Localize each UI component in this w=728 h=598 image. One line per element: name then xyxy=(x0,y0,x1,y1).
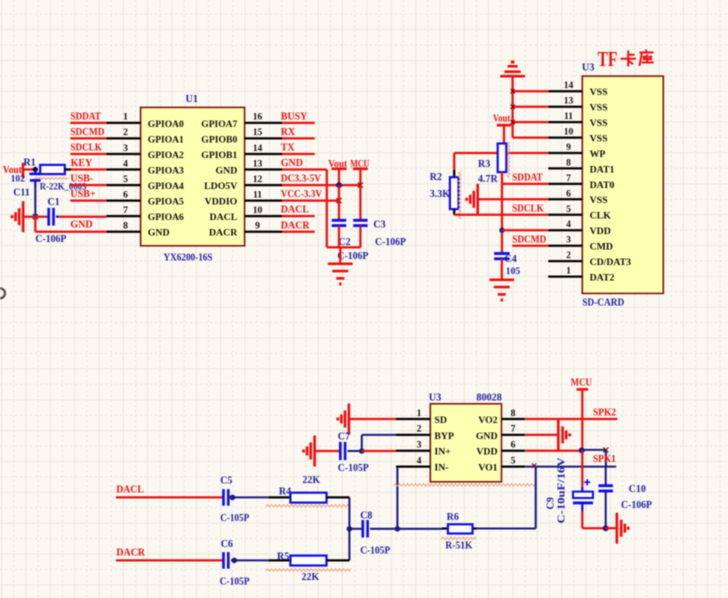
U1 pin 1 xyxy=(106,122,140,124)
svg-text:USB-: USB- xyxy=(70,174,93,185)
svg-text:9: 9 xyxy=(255,221,260,232)
svg-text:C-105P: C-105P xyxy=(360,545,390,556)
svg-text:22K: 22K xyxy=(302,572,320,583)
wire xyxy=(282,153,315,155)
ERC marker under amp xyxy=(394,484,536,486)
junction xyxy=(33,214,38,219)
svg-text:VSS: VSS xyxy=(590,134,609,145)
wire VO1/SPK1 xyxy=(525,466,617,468)
wire xyxy=(35,231,106,233)
svg-text:10: 10 xyxy=(564,127,574,138)
capacitor C7 xyxy=(339,442,342,460)
junction dot xyxy=(336,182,342,188)
U1 pin 15 xyxy=(245,137,282,139)
svg-text:GND: GND xyxy=(70,220,92,231)
wire xyxy=(349,528,363,530)
svg-text:C-106P: C-106P xyxy=(375,237,406,248)
wire xyxy=(34,217,36,232)
svg-text:BYP: BYP xyxy=(434,431,454,442)
amp pin 3 xyxy=(396,450,430,452)
svg-text:6: 6 xyxy=(123,189,128,200)
capacitor C3 xyxy=(353,219,367,222)
U1 pin 13 xyxy=(245,168,282,170)
svg-text:2: 2 xyxy=(417,424,422,435)
U1 pin 7 xyxy=(106,215,140,217)
svg-text:C-105P: C-105P xyxy=(220,576,250,587)
junction cross xyxy=(510,120,514,124)
SD pin 8 xyxy=(548,167,582,169)
U1 pin 11 xyxy=(245,199,282,201)
svg-text:8: 8 xyxy=(566,157,571,168)
amp pin 5 xyxy=(502,465,525,467)
wire xyxy=(327,559,350,561)
svg-text:GPIOA1: GPIOA1 xyxy=(148,134,184,145)
ERC marker under R6 xyxy=(441,537,476,539)
svg-text:VCC-3.3V: VCC-3.3V xyxy=(281,189,323,200)
wire xyxy=(71,168,106,170)
SD pin 10 xyxy=(548,136,582,138)
junction cross xyxy=(510,89,514,93)
amp pin 8 xyxy=(502,418,525,420)
wire GND pin7 xyxy=(525,434,558,436)
svg-text:4: 4 xyxy=(566,219,571,230)
wire IN- vertical xyxy=(396,467,398,529)
svg-text:SD-CARD: SD-CARD xyxy=(582,298,624,309)
svg-text:CLK: CLK xyxy=(590,211,612,222)
wire xyxy=(606,527,617,529)
svg-text:C5: C5 xyxy=(220,475,232,486)
wire xyxy=(349,418,396,420)
svg-text:C6: C6 xyxy=(221,539,233,550)
svg-text:C2: C2 xyxy=(338,237,350,248)
wire xyxy=(23,168,35,170)
svg-text:GND: GND xyxy=(216,165,238,176)
wire xyxy=(370,528,397,530)
capacitor C5 xyxy=(222,489,225,506)
wire VO2/SPK2 xyxy=(525,418,618,420)
wire xyxy=(70,199,106,201)
capacitor C8 xyxy=(361,520,364,538)
svg-text:11: 11 xyxy=(253,189,262,200)
svg-text:CD/DAT3: CD/DAT3 xyxy=(590,257,631,268)
svg-text:3: 3 xyxy=(417,440,422,451)
svg-text:VSS: VSS xyxy=(590,87,609,98)
U1 pin 14 xyxy=(245,153,282,155)
junction cross xyxy=(510,105,514,109)
junction cross on SPK1 wire xyxy=(532,463,536,467)
amp pin 6 xyxy=(502,450,525,452)
svg-text:1: 1 xyxy=(566,266,571,277)
svg-text:R5: R5 xyxy=(277,551,289,562)
SD pin 6 xyxy=(548,198,582,200)
svg-text:VO1: VO1 xyxy=(478,463,497,474)
svg-text:6: 6 xyxy=(511,440,516,451)
U1 pin 9 xyxy=(245,231,282,233)
svg-text:R1: R1 xyxy=(24,158,36,169)
junction cross xyxy=(336,198,341,203)
SD pin 13 xyxy=(548,106,582,108)
wire xyxy=(70,122,106,124)
U1 pin 10 xyxy=(245,215,282,217)
wire xyxy=(513,136,549,138)
svg-text:2: 2 xyxy=(566,250,571,261)
svg-text:C-106P: C-106P xyxy=(621,500,652,511)
wire xyxy=(513,90,549,92)
svg-text:C-105P: C-105P xyxy=(220,513,249,524)
svg-text:4.7R: 4.7R xyxy=(478,174,499,185)
ground above SD card xyxy=(500,75,525,78)
svg-text:BUSY: BUSY xyxy=(281,112,308,123)
ground left of C1 xyxy=(22,201,25,232)
svg-text:13: 13 xyxy=(253,158,263,169)
svg-text:R6: R6 xyxy=(447,512,459,523)
wire xyxy=(453,153,455,170)
svg-text:12: 12 xyxy=(253,174,263,185)
junction dot xyxy=(232,558,238,564)
ground right of pin7 xyxy=(557,419,560,450)
wire MCU rail xyxy=(359,185,361,220)
wire xyxy=(513,121,549,123)
svg-text:R3: R3 xyxy=(478,159,490,170)
svg-text:IN-: IN- xyxy=(434,463,448,474)
wire vertical R4-R5 xyxy=(348,497,350,560)
svg-text:8: 8 xyxy=(511,408,516,419)
ERC marker right of R3 xyxy=(507,142,509,178)
svg-text:C11: C11 xyxy=(13,187,30,198)
svg-text:C7: C7 xyxy=(338,431,350,442)
svg-text:DACR: DACR xyxy=(209,228,238,239)
svg-text:R4: R4 xyxy=(279,487,291,498)
svg-text:SPK2: SPK2 xyxy=(593,407,616,418)
svg-text:SDCLK: SDCLK xyxy=(512,203,544,214)
wire WP row xyxy=(454,152,548,154)
SD pin 3 xyxy=(548,245,582,247)
svg-text:SDCMD: SDCMD xyxy=(512,234,546,245)
svg-text:KEY: KEY xyxy=(71,158,93,169)
SD pin 11 xyxy=(548,121,582,123)
wire xyxy=(282,137,315,139)
junction dot xyxy=(603,525,609,531)
svg-text:LDO5V: LDO5V xyxy=(204,181,237,192)
resistor R3 xyxy=(498,144,507,173)
svg-text:C1: C1 xyxy=(48,197,60,208)
svg-text:C-10uF/16V: C-10uF/16V xyxy=(557,457,568,524)
ground left of SD pin1 xyxy=(348,404,351,435)
wire VDD pin6 xyxy=(525,450,582,452)
svg-text:VDD: VDD xyxy=(590,226,611,237)
amp pin 1 xyxy=(396,418,430,420)
SD pin 4 xyxy=(548,229,582,231)
svg-text:VDDIO: VDDIO xyxy=(205,197,238,208)
wire CLK row xyxy=(454,214,548,216)
svg-text:GPIOB0: GPIOB0 xyxy=(201,134,237,145)
svg-text:DACR: DACR xyxy=(281,220,311,231)
resistor R1 xyxy=(40,165,65,174)
wire xyxy=(282,215,315,217)
ground below C2/C3 xyxy=(339,247,341,262)
resistor R6 xyxy=(472,527,477,529)
SD pin 9 xyxy=(548,152,582,154)
resistor R5 xyxy=(290,556,326,566)
svg-text:4: 4 xyxy=(417,455,422,466)
svg-text:YX6200-16S: YX6200-16S xyxy=(164,252,213,263)
svg-text:TX: TX xyxy=(281,143,296,154)
wire xyxy=(282,231,315,233)
svg-text:SPK1: SPK1 xyxy=(593,454,616,465)
svg-text:GPIOA7: GPIOA7 xyxy=(201,119,237,130)
svg-text:DACL: DACL xyxy=(281,205,310,216)
svg-text:7: 7 xyxy=(511,424,516,435)
wire xyxy=(512,245,548,247)
wire xyxy=(65,168,71,170)
capacitor C4 xyxy=(494,252,510,255)
svg-text:15: 15 xyxy=(253,127,263,138)
svg-text:R2: R2 xyxy=(430,172,442,183)
svg-text:105: 105 xyxy=(506,266,521,277)
svg-text:GPIOA5: GPIOA5 xyxy=(148,197,184,208)
svg-text:C8: C8 xyxy=(360,510,372,521)
wire xyxy=(478,198,548,200)
U1 pin 4 xyxy=(106,168,140,170)
svg-text:C10: C10 xyxy=(629,484,646,495)
wire xyxy=(327,496,350,498)
svg-text:C-106P: C-106P xyxy=(337,251,368,262)
junction dot xyxy=(579,447,585,453)
svg-text:DAT0: DAT0 xyxy=(590,180,615,191)
SD pin 14 xyxy=(548,90,582,92)
capacitor C6 xyxy=(222,552,225,569)
svg-text:5: 5 xyxy=(123,174,128,185)
svg-text:C3: C3 xyxy=(373,220,385,231)
wire xyxy=(70,137,106,139)
svg-text:3: 3 xyxy=(123,143,128,154)
wire xyxy=(230,496,269,498)
IC U3 amplifier body 80028 xyxy=(430,404,501,482)
svg-text:2: 2 xyxy=(123,127,128,138)
U1 pin 12 xyxy=(245,184,282,186)
svg-text:SDCMD: SDCMD xyxy=(70,127,104,138)
ground left of C7 xyxy=(313,436,316,467)
SD pin 5 xyxy=(548,214,582,216)
wire xyxy=(502,183,548,185)
svg-text:SDDAT: SDDAT xyxy=(512,173,543,184)
wire xyxy=(605,491,607,528)
wire xyxy=(501,259,503,279)
svg-text:IN+: IN+ xyxy=(434,447,451,458)
svg-text:C-105P: C-105P xyxy=(338,463,369,474)
junction dot IN- net xyxy=(395,526,401,532)
svg-text:C-106P: C-106P xyxy=(35,234,66,245)
U1 pin 5 xyxy=(106,184,140,186)
svg-text:5: 5 xyxy=(511,455,516,466)
ground left of VSS pin6 xyxy=(476,184,479,215)
svg-text:VO2: VO2 xyxy=(478,415,497,426)
svg-text:11: 11 xyxy=(564,111,573,122)
svg-text:DAT2: DAT2 xyxy=(590,273,615,284)
U1 pin 8 xyxy=(106,231,140,233)
svg-text:1: 1 xyxy=(123,112,128,123)
svg-text:GPIOA6: GPIOA6 xyxy=(148,212,184,223)
svg-text:7: 7 xyxy=(566,173,571,184)
svg-text:VSS: VSS xyxy=(590,195,609,206)
svg-text:USB+: USB+ xyxy=(70,189,95,200)
svg-text:DC3.3-5V: DC3.3-5V xyxy=(281,174,322,185)
svg-text:R-51K: R-51K xyxy=(445,541,472,552)
svg-text:GND: GND xyxy=(476,431,498,442)
svg-text:14: 14 xyxy=(253,143,263,154)
svg-text:DAT1: DAT1 xyxy=(590,164,615,175)
svg-text:SDCLK: SDCLK xyxy=(70,143,102,154)
wire xyxy=(399,528,442,530)
svg-text:GPIOA4: GPIOA4 xyxy=(148,181,184,192)
wire xyxy=(338,226,340,248)
wire xyxy=(24,216,47,218)
svg-text:80028: 80028 xyxy=(476,393,501,404)
junction dot xyxy=(347,526,353,532)
U1 pin 2 xyxy=(106,137,140,139)
svg-text:GPIOA3: GPIOA3 xyxy=(148,165,184,176)
resistor R4 xyxy=(290,493,326,503)
svg-text:DACL: DACL xyxy=(116,484,144,495)
wire xyxy=(116,496,223,498)
svg-text:GND: GND xyxy=(148,228,170,239)
svg-text:U1: U1 xyxy=(186,94,198,105)
svg-text:14: 14 xyxy=(564,80,574,91)
wire xyxy=(282,184,360,186)
junction cross xyxy=(358,183,363,188)
svg-text:22K: 22K xyxy=(302,475,320,486)
wire BYP xyxy=(361,435,363,451)
svg-text:6: 6 xyxy=(566,188,571,199)
wire ground rail xyxy=(511,76,513,137)
wire xyxy=(581,511,583,528)
wire xyxy=(348,450,362,452)
svg-text:GND: GND xyxy=(281,158,303,169)
wire Vout rail xyxy=(338,185,340,220)
amp pin 4 xyxy=(396,465,430,467)
capacitor C2 xyxy=(332,219,346,222)
wire xyxy=(582,449,606,451)
ground bottom right xyxy=(616,513,619,544)
svg-text:102: 102 xyxy=(11,174,26,185)
svg-text:DACR: DACR xyxy=(116,548,145,559)
junction cross xyxy=(603,447,608,452)
capacitor C10 xyxy=(605,467,607,486)
capacitor C1 xyxy=(47,216,49,218)
svg-text:C9: C9 xyxy=(546,497,557,509)
svg-text:WP: WP xyxy=(590,149,606,160)
U1 pin 16 xyxy=(245,122,282,124)
wire xyxy=(315,450,340,452)
svg-text:16: 16 xyxy=(253,112,263,123)
UI handle half-ring at left edge xyxy=(0,288,5,298)
wire xyxy=(359,226,361,248)
svg-text:8: 8 xyxy=(123,221,128,232)
svg-text:RX: RX xyxy=(281,127,296,138)
svg-text:10: 10 xyxy=(253,205,263,216)
svg-text:MCU: MCU xyxy=(571,378,592,389)
svg-text:U3: U3 xyxy=(582,62,594,73)
wire xyxy=(34,187,36,217)
ERC marker under R5 xyxy=(266,569,351,571)
svg-text:13: 13 xyxy=(564,96,574,107)
svg-text:5: 5 xyxy=(566,204,571,215)
svg-text:9: 9 xyxy=(566,142,571,153)
wire xyxy=(282,122,315,124)
svg-text:4: 4 xyxy=(123,158,128,169)
junction at R1 left xyxy=(33,167,38,172)
U1 pin 3 xyxy=(106,153,140,155)
svg-text:3: 3 xyxy=(566,235,571,246)
ERC marker under R1 xyxy=(34,177,68,179)
svg-text:CMD: CMD xyxy=(590,242,613,253)
wire IN+ xyxy=(362,450,396,452)
wire xyxy=(282,168,327,170)
ERC marker right of R2 xyxy=(459,171,461,219)
IC U1 body YX6200-16S xyxy=(141,107,245,245)
wire xyxy=(282,199,339,201)
svg-text:VSS: VSS xyxy=(590,118,609,129)
amp pin 2 xyxy=(396,434,430,436)
svg-text:1: 1 xyxy=(417,408,422,419)
svg-text:DACL: DACL xyxy=(210,212,238,223)
ERC marker under R4 xyxy=(266,505,351,507)
amp pin 7 xyxy=(502,434,525,436)
capacitor C11 xyxy=(34,170,36,174)
svg-text:SD: SD xyxy=(434,415,447,426)
svg-text:Vout: Vout xyxy=(493,114,511,125)
svg-text:GPIOA0: GPIOA0 xyxy=(148,119,184,130)
wire down from SPK1 xyxy=(535,467,537,529)
svg-text:TF: TF xyxy=(598,47,618,71)
wire R3C4 rail xyxy=(501,184,503,254)
wire xyxy=(70,153,106,155)
wire xyxy=(70,184,106,186)
capacitor C9 (polarized) xyxy=(581,450,583,486)
resistor R2 xyxy=(453,170,455,177)
wire xyxy=(231,559,269,561)
svg-text:C4: C4 xyxy=(505,254,517,265)
svg-text:7: 7 xyxy=(123,205,128,216)
wire xyxy=(327,246,361,248)
wire xyxy=(513,106,549,108)
svg-text:VDD: VDD xyxy=(476,447,497,458)
IC U3 SD-CARD body xyxy=(582,76,663,293)
SD pin 7 xyxy=(548,183,582,185)
wire R3 bottom to DAT0 row xyxy=(501,172,503,184)
svg-text:SDDAT: SDDAT xyxy=(70,112,101,123)
junction dot xyxy=(359,448,365,454)
junction dot VDD row xyxy=(499,228,504,233)
wire xyxy=(116,559,223,561)
U1 pin 6 xyxy=(106,199,140,201)
wire VDD row xyxy=(502,229,548,231)
svg-text:GPIOB1: GPIOB1 xyxy=(201,150,237,161)
svg-text:3.3K: 3.3K xyxy=(430,189,451,200)
SD pin 2 xyxy=(548,260,582,262)
SD pin 1 xyxy=(548,275,582,277)
svg-text:GPIOA2: GPIOA2 xyxy=(148,150,184,161)
svg-text:VSS: VSS xyxy=(590,103,609,114)
junction dot xyxy=(230,495,236,501)
wire xyxy=(59,216,107,218)
svg-text:U3: U3 xyxy=(429,393,441,404)
ground below C4 xyxy=(490,278,515,281)
